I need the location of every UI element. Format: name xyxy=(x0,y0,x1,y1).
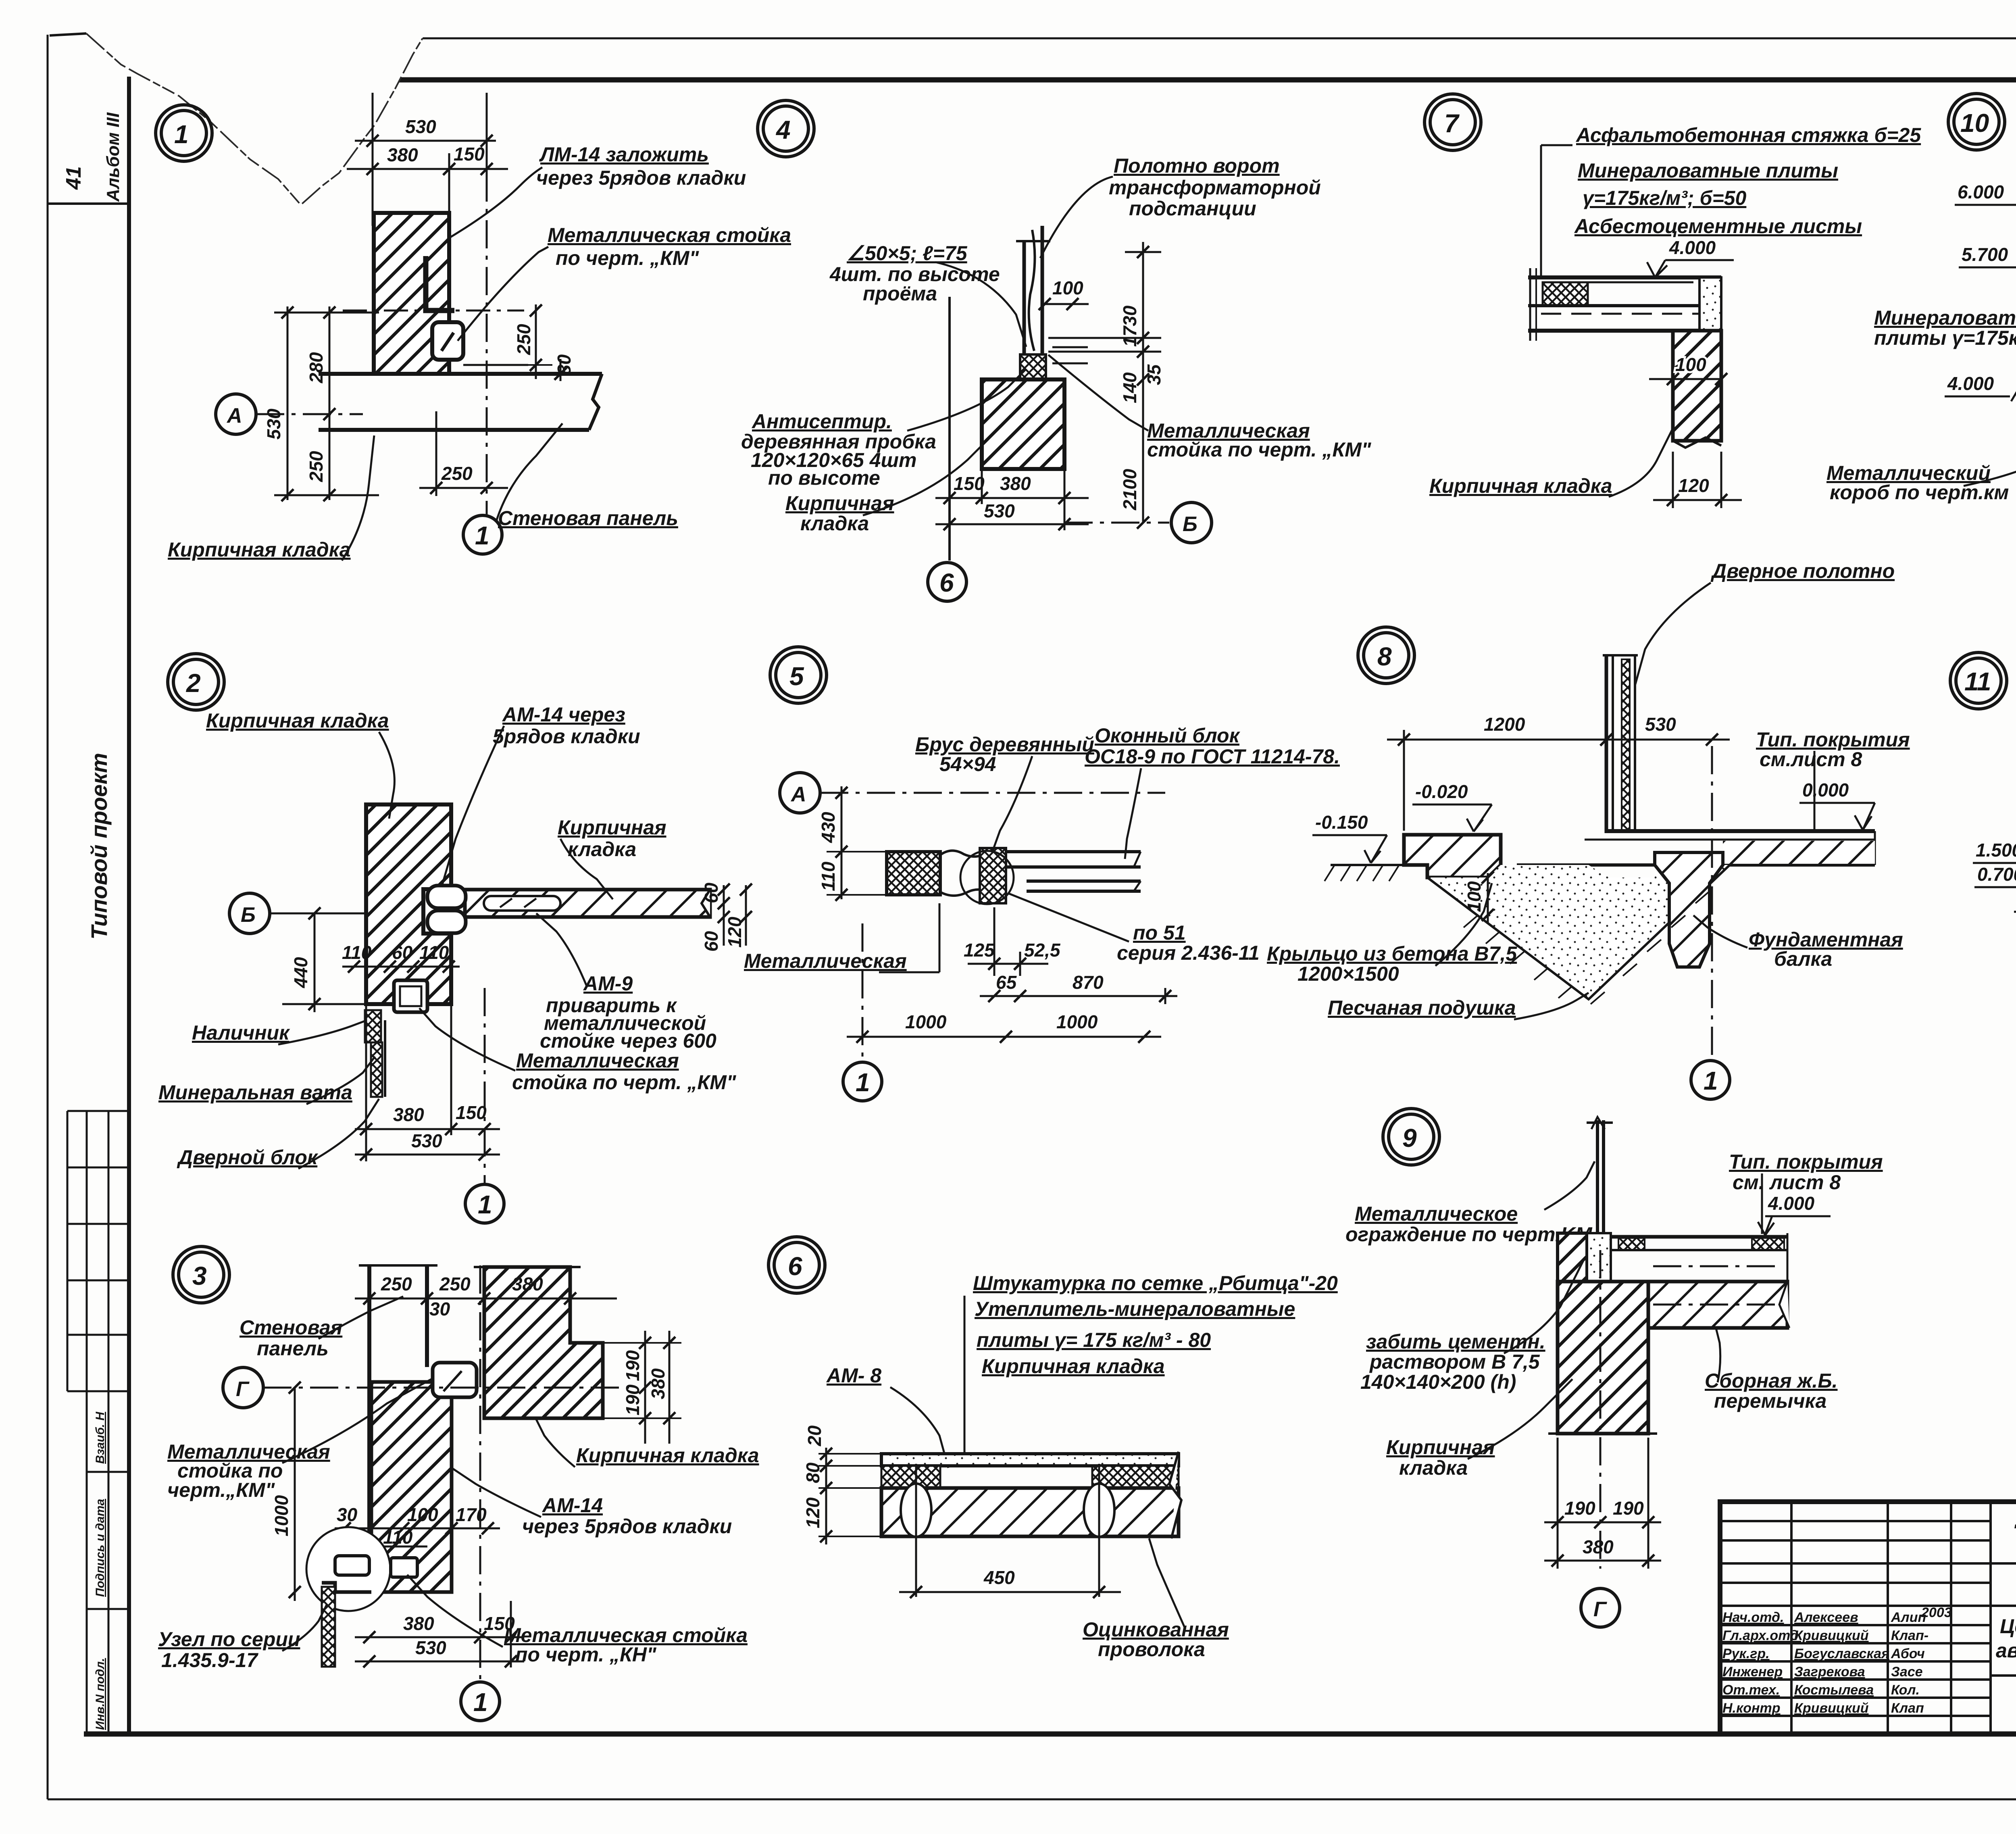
dim 120 bottom xyxy=(1653,452,1742,508)
svg-text:530: 530 xyxy=(1645,714,1676,735)
svg-text:Г: Г xyxy=(1593,1598,1607,1621)
svg-text:Г: Г xyxy=(236,1378,250,1401)
svg-text:1: 1 xyxy=(475,521,489,550)
metal stud L-profile xyxy=(426,256,454,311)
door leaf xyxy=(1603,655,1638,833)
svg-text:Тип. покрытия: Тип. покрытия xyxy=(1756,728,1910,751)
main stamp xyxy=(1720,1502,2016,1734)
svg-text:100: 100 xyxy=(1675,354,1706,375)
svg-text:Минераловатные плиты: Минераловатные плиты xyxy=(1578,159,1838,182)
svg-text:Нач.отд.: Нач.отд. xyxy=(1722,1610,1784,1625)
svg-text:Абоч: Абоч xyxy=(1891,1646,1925,1661)
gate leaf verticals xyxy=(1016,226,1050,363)
bottom dims 380 150 530 xyxy=(355,1601,524,1667)
svg-text:балка: балка xyxy=(1774,948,1832,970)
dim 440 xyxy=(282,913,375,1012)
svg-text:120: 120 xyxy=(724,917,745,948)
svg-text:Инв.N подл.: Инв.N подл. xyxy=(94,1658,107,1730)
wall below xyxy=(1673,331,1721,441)
svg-text:Оконный блок: Оконный блок xyxy=(1095,724,1241,747)
G axis xyxy=(223,1367,263,1408)
svg-text:430: 430 xyxy=(818,812,839,843)
junction bulbs xyxy=(427,886,466,908)
svg-text:1200: 1200 xyxy=(1484,714,1525,735)
svg-text:140×140×200 (h): 140×140×200 (h) xyxy=(1360,1371,1516,1393)
svg-text:по черт. „КН": по черт. „КН" xyxy=(515,1643,657,1666)
wooden plug crosshatch xyxy=(1020,354,1046,379)
svg-text:30: 30 xyxy=(429,1298,450,1319)
foundation beam xyxy=(1655,852,1723,967)
bottom dims xyxy=(935,469,1089,530)
svg-text:7: 7 xyxy=(1444,109,1460,138)
svg-text:1: 1 xyxy=(1704,1066,1718,1095)
svg-text:Асбестоцементные листы: Асбестоцементные листы xyxy=(1574,215,1862,238)
wire ellipses xyxy=(901,1484,931,1537)
svg-text:120: 120 xyxy=(1678,475,1709,496)
svg-text:см. лист 8: см. лист 8 xyxy=(1733,1171,1841,1194)
metal stud box below xyxy=(394,980,427,1012)
B axis xyxy=(1064,522,1169,524)
left vertical dims 530/280/250 xyxy=(274,306,379,500)
svg-text:80: 80 xyxy=(802,1462,823,1483)
G circle xyxy=(1581,1588,1620,1627)
left dims 20 80 120 xyxy=(818,1448,883,1544)
svg-text:Типовой проект: Типовой проект xyxy=(86,753,112,940)
detail 9 number circle xyxy=(1383,1109,1439,1165)
svg-text:Штукатурка по сетке „Рбитца"-2: Штукатурка по сетке „Рбитца"-20 xyxy=(973,1272,1338,1294)
svg-text:250: 250 xyxy=(441,463,473,484)
svg-text:Тип. покрытия: Тип. покрытия xyxy=(1729,1150,1883,1173)
dim 1200 530 xyxy=(1387,730,1730,831)
svg-text:ОС18-9 по ГОСТ 11214-78.: ОС18-9 по ГОСТ 11214-78. xyxy=(1085,745,1340,768)
svg-text:АМ-14: АМ-14 xyxy=(541,1494,603,1517)
svg-text:440: 440 xyxy=(290,957,311,988)
svg-text:Наличник: Наличник xyxy=(192,1021,290,1044)
brick block xyxy=(982,379,1064,469)
stud box xyxy=(433,1363,477,1397)
svg-text:450: 450 xyxy=(983,1567,1015,1588)
svg-text:250: 250 xyxy=(439,1273,471,1294)
svg-text:5рядов кладки: 5рядов кладки xyxy=(493,725,640,748)
brick wall hatched below-left xyxy=(371,1382,452,1592)
svg-text:Н.контр: Н.контр xyxy=(1722,1701,1781,1716)
svg-text:1: 1 xyxy=(478,1190,492,1219)
svg-text:Костылева: Костылева xyxy=(1794,1682,1874,1698)
svg-text:4.000: 4.000 xyxy=(1669,237,1716,258)
bottom dims 190 190 380 xyxy=(1544,1438,1661,1569)
detail 10 number circle xyxy=(1948,94,2005,150)
svg-text:52,5: 52,5 xyxy=(1024,940,1061,961)
svg-text:20: 20 xyxy=(804,1425,825,1446)
brick column xyxy=(1558,1282,1648,1434)
axis 1 xyxy=(862,923,864,1062)
svg-text:5: 5 xyxy=(789,662,804,691)
window block bars xyxy=(1006,852,1141,891)
svg-text:ограждение по черт.ΚΜ: ограждение по черт.ΚΜ xyxy=(1345,1223,1593,1246)
detail 6 number circle xyxy=(768,1237,825,1293)
svg-text:530: 530 xyxy=(984,500,1015,521)
dim 1000 left xyxy=(294,1388,296,1601)
svg-text:60: 60 xyxy=(392,942,413,963)
right vertical dim 250/80 xyxy=(463,304,560,381)
svg-text:∠50×5; ℓ=75: ∠50×5; ℓ=75 xyxy=(847,242,968,265)
svg-text:100: 100 xyxy=(1052,277,1083,298)
svg-text:ТП 405-7-4.86: ТП 405-7-4.86 xyxy=(2012,1517,2016,1556)
torn corner white patch xyxy=(50,16,427,205)
svg-text:плиты γ= 175 кг/м³ - 80: плиты γ= 175 кг/м³ - 80 xyxy=(977,1329,1211,1351)
right small dims 60/60/120 xyxy=(724,885,746,946)
svg-text:автомобильных шин: автомобильных шин xyxy=(1996,1639,2016,1662)
left margin: album box xyxy=(48,202,129,205)
svg-text:по черт. „КМ": по черт. „КМ" xyxy=(556,247,699,269)
dim 100 xyxy=(1487,873,1489,923)
svg-text:Стеновая: Стеновая xyxy=(240,1316,342,1339)
upper right brick block xyxy=(484,1267,603,1418)
svg-text:трансформаторной: трансформаторной xyxy=(1109,176,1321,199)
svg-text:кладка: кладка xyxy=(1399,1457,1468,1479)
sill assembly xyxy=(887,852,940,895)
svg-text:11: 11 xyxy=(1964,667,1991,696)
axis 1 xyxy=(1711,746,1713,1061)
svg-text:380: 380 xyxy=(387,144,418,165)
foundation pit concrete xyxy=(1427,852,1730,999)
nalichnik / mineral wool stack xyxy=(365,1010,381,1042)
svg-text:380: 380 xyxy=(512,1273,543,1294)
svg-text:150: 150 xyxy=(456,1102,487,1123)
svg-text:подстанции: подстанции xyxy=(1129,197,1256,220)
svg-text:Дверной блок: Дверной блок xyxy=(177,1146,319,1169)
svg-text:через 5рядов кладки: через 5рядов кладки xyxy=(522,1515,732,1538)
svg-text:А: А xyxy=(790,783,806,806)
brick wall vertical xyxy=(366,804,451,1004)
svg-text:35: 35 xyxy=(1143,364,1164,385)
svg-text:6: 6 xyxy=(788,1252,802,1281)
svg-text:Засе: Засе xyxy=(1891,1664,1923,1680)
svg-text:Кирпичная кладка: Кирпичная кладка xyxy=(168,538,351,561)
svg-text:380: 380 xyxy=(1583,1536,1614,1557)
right dims 190 190 380 xyxy=(570,1331,681,1444)
svg-text:кладка: кладка xyxy=(568,838,636,861)
svg-text:110: 110 xyxy=(383,1527,413,1548)
svg-text:по высоте: по высоте xyxy=(768,467,880,489)
svg-text:Асфальтобетонная стяжка б=25: Асфальтобетонная стяжка б=25 xyxy=(1575,124,1921,146)
slab band xyxy=(1558,1233,1787,1282)
small angle marks above block xyxy=(1052,346,1088,348)
svg-text:Брус деревянный: Брус деревянный xyxy=(915,733,1094,756)
svg-text:серия 2.436-11: серия 2.436-11 xyxy=(1117,942,1260,964)
concrete corner column xyxy=(1699,277,1721,331)
svg-text:А: А xyxy=(226,404,242,427)
railing post xyxy=(1587,1117,1613,1237)
svg-text:190: 190 xyxy=(622,1384,643,1415)
dims 110 60 110 xyxy=(342,966,460,968)
svg-text:6: 6 xyxy=(939,568,954,597)
svg-text:Узел по серии: Узел по серии xyxy=(158,1628,300,1651)
svg-text:Кирпичная кладка: Кирпичная кладка xyxy=(1429,475,1612,497)
wall panel vertical white xyxy=(359,1265,437,1592)
svg-text:ЛМ-14 заложить: ЛМ-14 заложить xyxy=(539,143,709,166)
floor band xyxy=(1517,831,1875,865)
dim 250 below panel xyxy=(419,411,508,496)
svg-text:Металлическое: Металлическое xyxy=(1355,1203,1518,1225)
detail 4 number circle xyxy=(758,100,814,157)
dims xyxy=(827,786,887,899)
svg-text:4: 4 xyxy=(775,115,791,144)
svg-text:190: 190 xyxy=(1613,1498,1644,1519)
svg-text:Металлическая: Металлическая xyxy=(744,950,907,972)
svg-text:170: 170 xyxy=(456,1504,487,1525)
svg-text:стойка по черт. „КМ": стойка по черт. „КМ" xyxy=(512,1071,737,1094)
svg-text:0.700: 0.700 xyxy=(1977,864,2016,885)
axis A xyxy=(780,773,820,813)
svg-text:6.000: 6.000 xyxy=(1958,181,2004,202)
svg-text:60: 60 xyxy=(701,931,722,952)
left margin lower stamp xyxy=(87,1391,129,1734)
svg-text:Сборная ж.Б.: Сборная ж.Б. xyxy=(1705,1369,1838,1392)
svg-text:проёма: проёма xyxy=(863,282,937,305)
svg-text:150: 150 xyxy=(454,144,485,165)
svg-text:110: 110 xyxy=(419,942,449,963)
svg-text:кладка: кладка xyxy=(800,512,869,535)
ground hatch left of porch xyxy=(1325,865,1404,881)
svg-text:60: 60 xyxy=(701,882,722,903)
bottom dims 380 150 530 xyxy=(355,936,500,1161)
svg-text:Алексеев: Алексеев xyxy=(1794,1610,1858,1625)
svg-text:Альбом III: Альбом III xyxy=(103,112,123,202)
axis 1 bottom xyxy=(484,988,486,1184)
svg-text:Утеплитель-минераловатные: Утеплитель-минераловатные xyxy=(975,1298,1295,1320)
svg-text:530: 530 xyxy=(415,1637,446,1658)
node circle assembly xyxy=(306,1527,390,1611)
dim 380/150 xyxy=(347,153,508,226)
svg-text:100: 100 xyxy=(407,1504,438,1525)
svg-text:380: 380 xyxy=(648,1368,669,1399)
left margin upper table xyxy=(67,1111,129,1391)
svg-text:65: 65 xyxy=(996,972,1017,993)
svg-text:Кирпичная кладка: Кирпичная кладка xyxy=(576,1444,759,1467)
svg-text:380: 380 xyxy=(1000,473,1031,494)
svg-text:Гл.арх.отд: Гл.арх.отд xyxy=(1722,1628,1799,1643)
svg-text:через 5рядов кладки: через 5рядов кладки xyxy=(536,167,746,189)
svg-text:1000: 1000 xyxy=(1056,1011,1098,1032)
mid dims 30 100 110 170 xyxy=(335,1528,500,1546)
axis line down to circle 1 xyxy=(486,173,488,515)
svg-text:Антисептир.: Антисептир. xyxy=(751,410,892,433)
svg-text:короб по черт.км: короб по черт.км xyxy=(1830,481,2009,504)
svg-text:Цех по ремонту: Цех по ремонту xyxy=(2000,1615,2016,1638)
detail 3 number circle xyxy=(173,1246,229,1303)
svg-text:190: 190 xyxy=(1564,1498,1595,1519)
svg-text:Стеновая панель: Стеновая панель xyxy=(498,507,678,529)
svg-text:30: 30 xyxy=(337,1504,358,1525)
svg-text:Кирпичная кладка: Кирпичная кладка xyxy=(982,1355,1165,1378)
svg-text:120: 120 xyxy=(802,1497,823,1528)
dim 1000 1000 xyxy=(847,1036,1161,1038)
axis A circle xyxy=(216,394,256,434)
svg-text:Кол.: Кол. xyxy=(1891,1682,1920,1698)
svg-text:Загрекова: Загрекова xyxy=(1794,1664,1865,1680)
detail 2 number circle xyxy=(168,654,224,710)
wall panel horizontal xyxy=(319,374,602,430)
svg-text:150: 150 xyxy=(954,473,985,494)
svg-text:4.000: 4.000 xyxy=(1768,1193,1815,1214)
svg-text:Клап-: Клап- xyxy=(1891,1628,1929,1643)
svg-text:см.лист 8: см.лист 8 xyxy=(1760,748,1862,771)
svg-text:Дверное полотно: Дверное полотно xyxy=(1710,560,1895,582)
svg-text:Б: Б xyxy=(1183,513,1198,536)
ground hatch around pit xyxy=(1464,891,1710,1004)
roof slab band xyxy=(1528,268,1721,341)
svg-text:перемычка: перемычка xyxy=(1714,1390,1826,1412)
svg-text:Кривицкий: Кривицкий xyxy=(1794,1701,1869,1716)
brick wall hatched xyxy=(374,213,449,374)
detail 5 number circle xyxy=(770,647,827,703)
svg-text:стойка по черт. „КМ": стойка по черт. „КМ" xyxy=(1147,438,1372,461)
svg-text:380: 380 xyxy=(393,1104,424,1125)
svg-text:250: 250 xyxy=(513,324,534,355)
svg-text:1: 1 xyxy=(856,1068,870,1097)
svg-text:Богуславская: Богуславская xyxy=(1794,1646,1889,1661)
svg-text:Оцинкованная: Оцинкованная xyxy=(1083,1618,1229,1641)
svg-text:280: 280 xyxy=(306,352,327,383)
lintel beam xyxy=(1648,1282,1787,1328)
svg-text:Подпись и дата: Подпись и дата xyxy=(94,1499,107,1597)
svg-text:530: 530 xyxy=(263,408,284,440)
detail 11 number circle xyxy=(1950,652,2007,709)
svg-text:10: 10 xyxy=(1960,108,1989,138)
svg-text:250: 250 xyxy=(306,451,327,482)
svg-text:γ=175кг/м³; б=50: γ=175кг/м³; б=50 xyxy=(1583,187,1746,209)
svg-text:-0.150: -0.150 xyxy=(1315,812,1368,833)
svg-text:Металлическая стойка: Металлическая стойка xyxy=(548,224,791,246)
axis line xyxy=(1599,1250,1602,1569)
svg-text:250: 250 xyxy=(381,1273,412,1294)
svg-text:140: 140 xyxy=(1119,372,1140,403)
top dims 250 250 30 380 xyxy=(355,1298,617,1300)
svg-text:плиты γ=175кг/м³: плиты γ=175кг/м³ xyxy=(1874,327,2016,349)
svg-text:1.500: 1.500 xyxy=(1976,840,2016,861)
svg-text:Кирпичная: Кирпичная xyxy=(558,816,666,839)
svg-text:1.435.9-17: 1.435.9-17 xyxy=(161,1649,258,1671)
svg-text:Кирпичная кладка: Кирпичная кладка xyxy=(206,709,389,732)
svg-text:Клап: Клап xyxy=(1891,1701,1924,1716)
svg-text:Крыльцо из бетона В7,5: Крыльцо из бетона В7,5 xyxy=(1267,942,1517,965)
left axis line + circle 6 xyxy=(948,297,951,561)
svg-text:1200×1500: 1200×1500 xyxy=(1297,963,1399,985)
svg-text:Металлическая: Металлическая xyxy=(516,1049,679,1072)
dim 530 top xyxy=(355,93,496,226)
svg-text:Б: Б xyxy=(241,903,256,927)
svg-text:1: 1 xyxy=(473,1688,488,1717)
svg-text:1730: 1730 xyxy=(1119,305,1140,347)
svg-text:110: 110 xyxy=(342,942,372,963)
svg-text:Инженер: Инженер xyxy=(1722,1664,1783,1680)
svg-text:380: 380 xyxy=(403,1613,434,1634)
svg-text:2003: 2003 xyxy=(1921,1605,1952,1620)
svg-text:54×94: 54×94 xyxy=(939,753,996,775)
svg-text:110: 110 xyxy=(818,861,839,891)
svg-text:забить цементн.: забить цементн. xyxy=(1366,1330,1545,1353)
right vertical dim chain xyxy=(1048,242,1161,523)
dim 450 xyxy=(899,1591,1121,1593)
svg-text:стойке через 600: стойке через 600 xyxy=(540,1030,716,1052)
axis vertical + circle 1 xyxy=(479,1265,481,1682)
callout circle xyxy=(960,851,1014,904)
svg-text:панель: панель xyxy=(257,1337,329,1360)
svg-text:100: 100 xyxy=(1464,881,1485,912)
svg-text:Минераловатные: Минераловатные xyxy=(1874,306,2016,329)
svg-text:2: 2 xyxy=(186,669,201,698)
svg-text:проволока: проволока xyxy=(1098,1638,1205,1661)
svg-text:Кирпичная: Кирпичная xyxy=(1386,1436,1495,1459)
detail 8 number circle xyxy=(1358,627,1414,684)
left margin column line xyxy=(127,77,131,1734)
svg-text:5.700: 5.700 xyxy=(1962,244,2008,265)
svg-text:190: 190 xyxy=(622,1350,643,1381)
svg-text:АМ-14 через: АМ-14 через xyxy=(502,703,625,726)
svg-text:870: 870 xyxy=(1073,972,1104,993)
svg-text:АМ- 8: АМ- 8 xyxy=(826,1364,881,1387)
axis B xyxy=(229,893,270,934)
horizontal brick bar xyxy=(465,890,710,917)
anchor plate inside bar xyxy=(484,896,560,911)
detail 1 number circle xyxy=(156,105,212,161)
svg-text:раствором В 7,5: раствором В 7,5 xyxy=(1369,1350,1540,1373)
svg-text:125: 125 xyxy=(964,940,995,961)
svg-text:черт.„КМ": черт.„КМ" xyxy=(167,1479,275,1501)
svg-text:41: 41 xyxy=(62,166,85,190)
svg-text:3: 3 xyxy=(192,1261,207,1290)
svg-text:Взаиб. Н: Взаиб. Н xyxy=(94,1411,107,1464)
svg-text:Полотно ворот: Полотно ворот xyxy=(1114,154,1280,177)
detail 7 number circle xyxy=(1425,94,1481,150)
svg-text:Минеральная вата: Минеральная вата xyxy=(158,1081,352,1104)
svg-text:2100: 2100 xyxy=(1119,469,1140,511)
svg-text:Кривицкий: Кривицкий xyxy=(1794,1628,1869,1643)
svg-text:80: 80 xyxy=(554,354,575,375)
signature rows handwriting xyxy=(1722,1605,1952,1716)
svg-text:4.000: 4.000 xyxy=(1947,373,1994,394)
slab layers xyxy=(881,1452,1181,1538)
svg-text:530: 530 xyxy=(405,116,436,137)
svg-text:1000: 1000 xyxy=(905,1011,947,1032)
svg-text:0.000: 0.000 xyxy=(1802,779,1849,800)
stud axis dash-dot xyxy=(343,310,524,312)
svg-text:От.тех.: От.тех. xyxy=(1722,1682,1780,1698)
svg-text:1: 1 xyxy=(174,120,189,149)
svg-text:Песчаная подушка: Песчаная подушка xyxy=(1328,996,1516,1019)
stud box xyxy=(432,322,463,360)
svg-text:9: 9 xyxy=(1402,1123,1417,1153)
svg-text:530: 530 xyxy=(411,1130,442,1151)
porch slab xyxy=(1404,835,1501,877)
svg-text:8: 8 xyxy=(1377,642,1392,671)
svg-text:-0.020: -0.020 xyxy=(1415,781,1468,802)
svg-text:АМ-9: АМ-9 xyxy=(583,972,633,995)
svg-text:Рук.гр.: Рук.гр. xyxy=(1722,1646,1770,1661)
svg-text:по 51: по 51 xyxy=(1133,921,1186,944)
